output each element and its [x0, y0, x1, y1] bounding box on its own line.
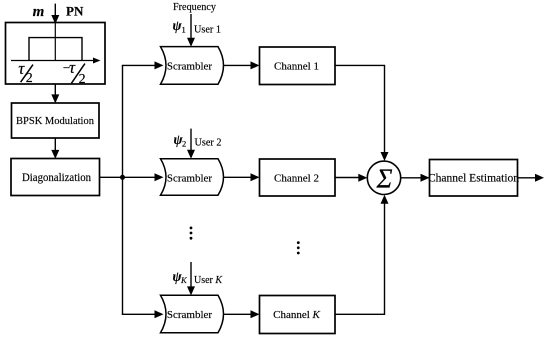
wire Channel 2 to summer: [335, 174, 367, 182]
ellipsis between channel rows: [297, 241, 300, 254]
svg-text:User 1: User 1: [194, 25, 221, 36]
label -tau/2: [62, 58, 86, 87]
BPSK Modulation block: [12, 103, 100, 138]
wire PN input arrow: [51, 4, 59, 24]
wire Channel K to summer: [335, 195, 389, 315]
svg-text:Scrambler: Scrambler: [167, 61, 213, 73]
svg-text:2: 2: [26, 71, 33, 86]
label psi1: [173, 18, 186, 35]
wire psiK into Scrambler 3: [187, 262, 195, 295]
label tau/2: [18, 59, 33, 86]
summer sigma: [367, 161, 400, 194]
svg-text:Diagonalization: Diagonalization: [22, 172, 91, 184]
axis of pulse waveform: [11, 58, 101, 64]
svg-text:Σ: Σ: [375, 164, 392, 194]
wire bus to Scrambler 2: [123, 173, 164, 181]
PN pulse-shaping block: [6, 23, 106, 85]
scrambler S1: [161, 47, 224, 85]
wire Frequency into Scrambler 1: [187, 14, 195, 47]
wire bus to Scrambler 3: [122, 310, 164, 318]
wire bus to Scrambler 1: [122, 61, 164, 69]
wire output arrow: [518, 174, 545, 182]
Channel Estimation block: [428, 160, 519, 197]
svg-text:User 2: User 2: [195, 138, 222, 149]
wire psi2 into Scrambler 2: [187, 129, 195, 159]
label psiK: [173, 269, 189, 285]
junction dot: [120, 175, 125, 180]
wire Scrambler 1 to Channel 1: [224, 61, 260, 69]
svg-text:τ: τ: [69, 58, 76, 77]
rectangular pulse waveform: [29, 38, 82, 61]
Diagonalization block: [11, 159, 100, 196]
label psi2: [174, 132, 187, 149]
svg-text:τ: τ: [18, 59, 25, 78]
wire PN block to BPSK: [51, 84, 59, 103]
svg-text:Channel K: Channel K: [273, 309, 320, 321]
svg-text:2: 2: [79, 72, 86, 87]
svg-text:Channel 1: Channel 1: [274, 61, 319, 73]
Channel 2 block: [260, 159, 336, 196]
scrambler S3: [161, 295, 224, 333]
Channel K block: [260, 296, 336, 334]
svg-text:BPSK Modulation: BPSK Modulation: [16, 115, 94, 127]
svg-text:Frequency: Frequency: [173, 1, 216, 13]
svg-text:Scrambler: Scrambler: [167, 172, 213, 184]
svg-text:Channel 2: Channel 2: [274, 172, 319, 184]
Channel 1 block: [260, 47, 336, 85]
wire summer to Channel Estimation: [401, 174, 430, 182]
wire Channel 1 to summer: [335, 65, 389, 161]
wire BPSK to Diagonalization: [51, 138, 59, 159]
svg-text:Channel Estimation: Channel Estimation: [428, 173, 519, 185]
wire Scrambler 3 to Channel K: [224, 310, 260, 318]
scrambler S2: [161, 159, 224, 196]
ellipsis between scrambler rows: [190, 227, 193, 240]
wire vertical bus: [122, 65, 124, 314]
svg-text:PN: PN: [66, 4, 84, 19]
svg-text:Scrambler: Scrambler: [167, 309, 213, 321]
svg-text:User K: User K: [194, 275, 223, 286]
svg-text:1: 1: [182, 25, 186, 35]
wire Scrambler 2 to Channel 2: [224, 173, 260, 181]
svg-text:2: 2: [182, 139, 186, 149]
wire Diagonalization to junction: [100, 176, 123, 178]
svg-text:m: m: [33, 4, 45, 20]
vertical axis line in PN block: [54, 23, 56, 61]
